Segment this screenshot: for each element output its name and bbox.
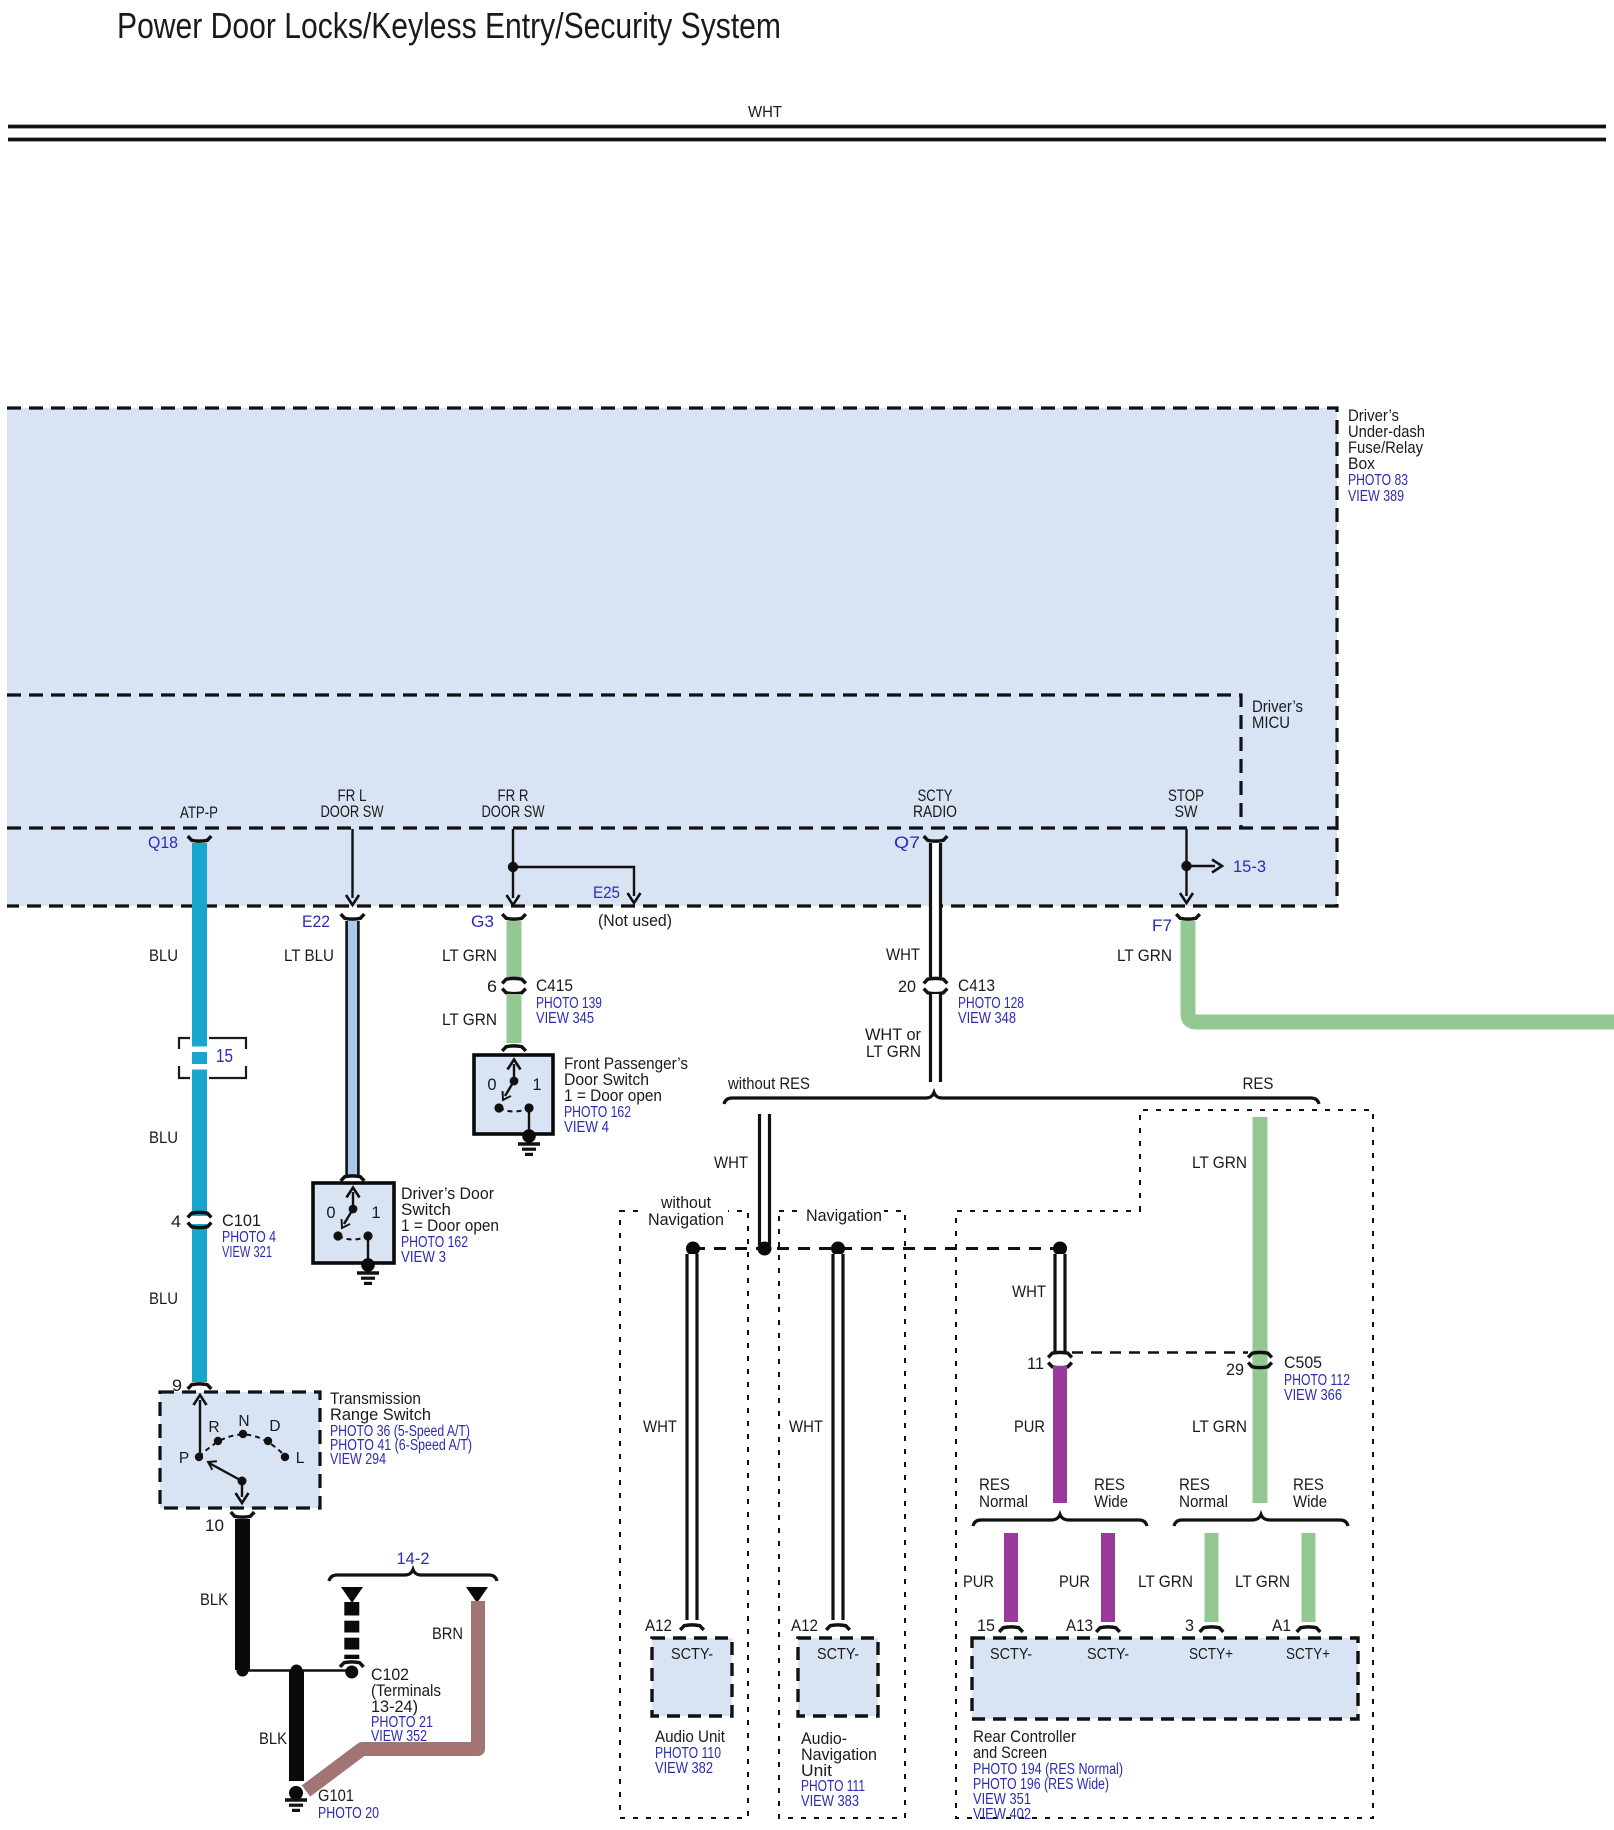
svg-text:LT GRN: LT GRN [1192, 1417, 1247, 1436]
brace without RES / RES [724, 1093, 1319, 1105]
svg-text:C413: C413 [958, 976, 995, 995]
svg-text:SCTY-: SCTY- [1087, 1646, 1129, 1663]
pin 9 terminal [188, 1384, 212, 1389]
wire branch to 15-3 [1187, 860, 1223, 873]
wire pins row line of fuse/relay box [7, 826, 1337, 829]
svg-text:15: 15 [216, 1045, 233, 1066]
svg-text:E25: E25 [593, 883, 620, 902]
svg-text:without RES: without RES [727, 1074, 810, 1093]
svg-text:G101: G101 [318, 1786, 354, 1805]
audio-navigation unit U7 SCTY- box [798, 1638, 878, 1716]
connector C413 label [958, 976, 1024, 1027]
wire FR L DOOR SW arrow [346, 829, 359, 905]
connector C102 terminal [340, 1662, 364, 1667]
rear controller U8 box [972, 1638, 1358, 1719]
svg-text:LT GRN: LT GRN [1192, 1153, 1247, 1172]
svg-text:PUR: PUR [963, 1572, 994, 1591]
svg-text:P: P [179, 1450, 189, 1467]
wire STOP SW down [1180, 829, 1193, 903]
ground at driver's door switch [357, 1258, 379, 1283]
junction dot bus 2 [758, 1242, 772, 1256]
svg-text:LT GRN: LT GRN [866, 1042, 921, 1061]
wire LT GRN branch 2 [1302, 1533, 1316, 1622]
svg-text:VIEW 366: VIEW 366 [1284, 1387, 1342, 1404]
svg-text:A12: A12 [791, 1616, 818, 1635]
svg-text:SCTY-: SCTY- [671, 1646, 713, 1663]
pin A1 terminal [1297, 1627, 1321, 1632]
label Driver's Under-dash Fuse/Relay Box [1348, 406, 1425, 505]
svg-text:N: N [238, 1413, 249, 1430]
connector C505 pin 29 symbol [1248, 1352, 1272, 1367]
wire LT GRN RES column top [1253, 1117, 1268, 1503]
svg-text:BLU: BLU [149, 1128, 178, 1147]
svg-text:G3: G3 [471, 912, 494, 931]
svg-text:BRN: BRN [432, 1624, 463, 1643]
svg-text:C415: C415 [536, 976, 573, 995]
transmission range switch U3 box [160, 1392, 320, 1508]
wire LT GRN G3 upper [507, 921, 522, 977]
svg-text:3: 3 [1185, 1616, 1194, 1635]
svg-text:Navigation: Navigation [806, 1206, 882, 1225]
svg-text:1 = Door open: 1 = Door open [401, 1216, 499, 1235]
svg-text:BLK: BLK [200, 1590, 229, 1609]
box without Navigation container [620, 1211, 748, 1818]
junction dot pin10 [237, 1665, 249, 1677]
svg-text:15: 15 [977, 1616, 995, 1635]
svg-text:Q7: Q7 [894, 833, 920, 852]
driver's door switch internals [326, 1188, 380, 1263]
svg-text:VIEW 348: VIEW 348 [958, 1010, 1016, 1027]
svg-text:E22: E22 [302, 912, 330, 931]
brace RES normal/wide right [1174, 1515, 1348, 1527]
arrow triangle into 14-2 left [341, 1587, 363, 1603]
junction dot E25 branch [508, 862, 518, 872]
wire BLU teal vertical ATP-P [192, 843, 207, 1382]
svg-text:SCTY+: SCTY+ [1286, 1646, 1330, 1663]
svg-text:VIEW 4: VIEW 4 [564, 1119, 609, 1136]
connector C101 symbol [188, 1212, 212, 1227]
wire LT BLU [346, 921, 360, 1175]
junction dot 15-3 [1181, 861, 1191, 871]
svg-text:WHT: WHT [1012, 1282, 1046, 1301]
front passenger's door switch U5 box [474, 1055, 553, 1134]
audio unit label [655, 1727, 725, 1777]
pin 10 terminal [231, 1512, 255, 1517]
brace RES normal/wide left [973, 1515, 1147, 1527]
audio-navigation unit label [801, 1729, 877, 1810]
front passenger's door switch internals [487, 1060, 541, 1134]
pin Q7 terminal [924, 836, 948, 841]
svg-text:PUR: PUR [1014, 1417, 1045, 1436]
svg-text:DOOR SW: DOOR SW [482, 803, 545, 821]
wire LT BLU end cap [341, 1176, 365, 1181]
connector C101 label [222, 1211, 276, 1261]
wire BRN [306, 1601, 478, 1791]
connector C413 symbol [924, 978, 948, 993]
fuse 15 bracket outline [179, 1038, 246, 1078]
ground G101 label [318, 1786, 379, 1822]
svg-text:Normal: Normal [1179, 1492, 1228, 1511]
connector C505 label [1284, 1353, 1350, 1404]
pin A13 terminal [1096, 1627, 1120, 1632]
svg-text:Q18: Q18 [148, 833, 178, 852]
svg-text:29: 29 [1226, 1360, 1244, 1379]
junction wire at C102 [243, 1669, 352, 1671]
svg-text:0: 0 [487, 1076, 496, 1094]
svg-text:WHT: WHT [789, 1417, 823, 1436]
svg-text:SCTY-: SCTY- [817, 1646, 859, 1663]
svg-text:VIEW 3: VIEW 3 [401, 1249, 446, 1266]
svg-text:VIEW 345: VIEW 345 [536, 1010, 594, 1027]
wire WHT bus bottom line [8, 138, 1606, 142]
wire WHT or LT GRN lower [929, 994, 942, 1082]
svg-text:VIEW 389: VIEW 389 [1348, 488, 1404, 505]
pin STOP SW label [1168, 787, 1204, 821]
wire WHT audio unit column [686, 1254, 699, 1620]
connector C102 label [371, 1665, 441, 1745]
svg-text:MICU: MICU [1252, 713, 1290, 732]
ground at front passenger's door switch [518, 1129, 540, 1154]
svg-text:(Not used): (Not used) [598, 911, 672, 930]
rear controller label [973, 1727, 1123, 1823]
audio unit U6 SCTY- box [652, 1638, 732, 1716]
label without Navigation [644, 1193, 728, 1229]
junction dot bus 4 [1053, 1242, 1067, 1256]
svg-text:VIEW 321: VIEW 321 [222, 1244, 272, 1261]
arrow triangle into 14-2 right [466, 1587, 488, 1603]
svg-text:A1: A1 [1272, 1616, 1291, 1635]
connector C415 label [536, 976, 602, 1027]
svg-text:R: R [208, 1419, 219, 1436]
wire WHT bus top line [8, 125, 1606, 129]
svg-text:15-3: 15-3 [1233, 857, 1266, 876]
wire PUR RES column [1053, 1366, 1067, 1503]
pin Q18 terminal [188, 836, 212, 841]
wire WHT from Q7 [929, 843, 942, 977]
box U1 Driver's Under-dash Fuse/Relay Box [7, 408, 1337, 906]
pin FR L DOOR SW label [321, 787, 384, 821]
box Navigation container [779, 1211, 905, 1818]
svg-text:DOOR SW: DOOR SW [321, 803, 384, 821]
svg-text:Power Door Locks/Keyless Entry: Power Door Locks/Keyless Entry/Security … [117, 5, 781, 46]
label WHT or LT GRN [865, 1025, 921, 1061]
svg-text:PUR: PUR [1059, 1572, 1090, 1591]
junction dot bus 1 [686, 1242, 700, 1256]
svg-text:20: 20 [898, 977, 916, 996]
transmission range switch internals [179, 1395, 305, 1503]
svg-text:1: 1 [532, 1076, 541, 1094]
svg-text:WHT: WHT [714, 1153, 748, 1172]
pin G3 terminal [502, 914, 526, 919]
label RES Wide 2 [1293, 1475, 1327, 1511]
svg-text:WHT: WHT [886, 945, 920, 964]
pin A12 audio-navigation terminal [826, 1625, 850, 1630]
wire dashed junction bus [693, 1247, 1060, 1250]
pin F7 terminal [1176, 914, 1200, 919]
connector C505 pin 11 symbol [1048, 1352, 1072, 1367]
box U2 Driver's MICU region [7, 695, 1241, 828]
wire WHT RES column [1054, 1254, 1067, 1353]
svg-text:1 = Door open: 1 = Door open [564, 1086, 662, 1105]
wire PUR branch 2 [1101, 1533, 1115, 1622]
pin SCTY RADIO label [913, 787, 957, 821]
front passenger's door switch label [564, 1054, 688, 1136]
connector C415 symbol [502, 978, 526, 993]
svg-text:VIEW 294: VIEW 294 [330, 1451, 386, 1468]
wire BLK striped to C102 [344, 1602, 360, 1659]
fuse 15 gaps [190, 1047, 209, 1070]
driver's door switch U4 box [313, 1183, 394, 1263]
svg-text:VIEW 402: VIEW 402 [973, 1806, 1031, 1823]
svg-text:LT BLU: LT BLU [284, 946, 334, 965]
wire PUR branch 1 [1004, 1533, 1018, 1622]
svg-text:SCTY+: SCTY+ [1189, 1646, 1233, 1663]
junction dot C102 [345, 1666, 358, 1679]
svg-text:LT GRN: LT GRN [1235, 1572, 1290, 1591]
svg-text:F7: F7 [1152, 916, 1172, 935]
svg-text:C101: C101 [222, 1211, 261, 1230]
svg-text:RES: RES [1243, 1074, 1274, 1093]
svg-text:6: 6 [487, 977, 497, 996]
box RES container L-shape [956, 1110, 1373, 1818]
pin E22 terminal [341, 914, 365, 919]
transmission range switch label [330, 1389, 472, 1468]
svg-text:BLK: BLK [259, 1729, 288, 1748]
svg-text:L: L [296, 1450, 305, 1467]
svg-text:10: 10 [205, 1516, 224, 1535]
svg-text:Normal: Normal [979, 1492, 1028, 1511]
connector C505 dashed link [1072, 1351, 1248, 1353]
svg-text:Range Switch: Range Switch [330, 1405, 431, 1424]
pin 3 terminal [1200, 1627, 1224, 1632]
svg-text:LT GRN: LT GRN [1117, 946, 1172, 965]
wire WHT below brace [758, 1114, 771, 1245]
svg-text:Audio Unit: Audio Unit [655, 1727, 725, 1746]
svg-text:and Screen: and Screen [973, 1743, 1047, 1762]
svg-text:PHOTO 20: PHOTO 20 [318, 1805, 379, 1822]
brace 14-2 [329, 1570, 497, 1582]
svg-text:A12: A12 [645, 1616, 672, 1635]
pin 15 terminal [999, 1627, 1023, 1632]
junction dot bus 3 [831, 1242, 845, 1256]
svg-text:LT GRN: LT GRN [442, 946, 497, 965]
label Navigation [804, 1206, 884, 1225]
svg-text:A13: A13 [1066, 1616, 1093, 1635]
svg-text:BLU: BLU [149, 1289, 178, 1308]
svg-text:ATP-P: ATP-P [180, 804, 218, 822]
svg-text:VIEW 382: VIEW 382 [655, 1760, 713, 1777]
svg-text:C505: C505 [1284, 1353, 1322, 1372]
svg-text:Wide: Wide [1094, 1492, 1128, 1511]
driver's door switch label [401, 1184, 499, 1266]
svg-text:PHOTO 83: PHOTO 83 [1348, 472, 1408, 489]
wire BLK from pin 10 [235, 1519, 250, 1670]
svg-text:D: D [269, 1418, 280, 1435]
wire BLK to ground [289, 1670, 304, 1781]
svg-text:Wide: Wide [1293, 1492, 1327, 1511]
svg-text:4: 4 [171, 1212, 181, 1231]
wire LT GRN branch 1 [1205, 1533, 1219, 1622]
svg-text:VIEW 383: VIEW 383 [801, 1793, 859, 1810]
junction dot middle [291, 1665, 303, 1677]
label Driver's MICU [1252, 697, 1303, 732]
svg-text:Navigation: Navigation [648, 1210, 724, 1229]
svg-text:LT GRN: LT GRN [1138, 1572, 1193, 1591]
svg-text:11: 11 [1027, 1354, 1044, 1373]
svg-text:SCTY-: SCTY- [990, 1646, 1032, 1663]
label RES Normal 1 [979, 1475, 1028, 1511]
label RES Normal 2 [1179, 1475, 1228, 1511]
wire FR R DOOR SW arrow [507, 829, 520, 905]
label RES Wide 1 [1094, 1475, 1128, 1511]
svg-text:1: 1 [371, 1204, 380, 1222]
wire WHT navigation column [832, 1254, 845, 1620]
svg-text:Box: Box [1348, 454, 1375, 473]
wire LT GRN end cap at switch [502, 1046, 526, 1051]
svg-text:RADIO: RADIO [913, 803, 957, 821]
wire LT GRN from F7 to right edge [1188, 921, 1614, 1022]
svg-text:LT GRN: LT GRN [442, 1010, 497, 1029]
pin FR R DOOR SW label [482, 787, 545, 821]
wire LT GRN G3 lower [507, 994, 522, 1043]
svg-text:0: 0 [326, 1204, 335, 1222]
svg-text:SW: SW [1175, 803, 1198, 821]
svg-text:BLU: BLU [149, 946, 178, 965]
pin A12 audio unit terminal [680, 1625, 704, 1630]
wire E25 branch [513, 867, 641, 903]
ground G101 symbol [285, 1786, 307, 1810]
svg-text:WHT: WHT [643, 1417, 677, 1436]
svg-text:WHT: WHT [748, 104, 782, 121]
